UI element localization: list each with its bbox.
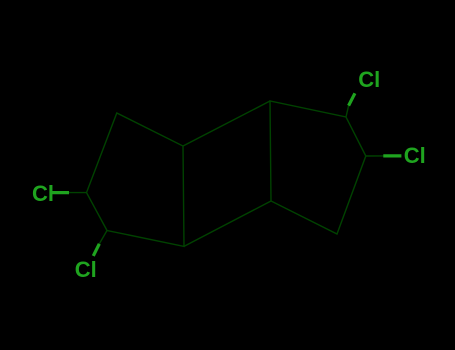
- svg-text:Cl: Cl: [32, 181, 54, 206]
- svg-text:Cl: Cl: [404, 143, 426, 168]
- right benzene ring: [270, 101, 366, 234]
- dark half of C-Cl bond left: [69, 192, 87, 194]
- bright half-bond to right Cl: [383, 154, 401, 157]
- bright half-bond to left Cl: [52, 191, 69, 194]
- central four-membered ring bond top: E to D': [183, 101, 270, 146]
- svg-text:Cl: Cl: [75, 257, 97, 282]
- dark half of C-Cl bond bottom: [99, 231, 107, 244]
- dark half of C-Cl bond top: [346, 106, 349, 117]
- central four-membered ring bond bottom: D to E': [184, 201, 271, 246]
- dark half of C-Cl bond right: [366, 155, 384, 157]
- svg-text:Cl: Cl: [358, 67, 380, 92]
- bright half-bond to bottom Cl: [93, 244, 99, 256]
- bright half-bond to top Cl: [349, 93, 355, 105]
- left benzene ring: [87, 113, 185, 246]
